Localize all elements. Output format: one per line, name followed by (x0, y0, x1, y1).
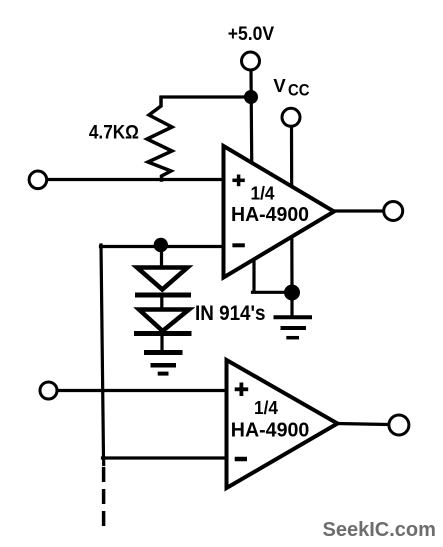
svg-text:V: V (273, 75, 286, 96)
svg-text:HA-4900: HA-4900 (231, 419, 309, 441)
svg-text:4.7KΩ: 4.7KΩ (89, 123, 139, 144)
svg-text:1/4: 1/4 (251, 183, 276, 204)
svg-text:+5.0V: +5.0V (228, 23, 275, 45)
svg-text:HA-4900: HA-4900 (231, 204, 309, 226)
svg-text:1/4: 1/4 (254, 397, 279, 418)
svg-text:CC: CC (288, 81, 310, 100)
svg-text:IN 914's: IN 914's (195, 302, 266, 325)
svg-text:SeekIC.com: SeekIC.com (323, 519, 436, 541)
